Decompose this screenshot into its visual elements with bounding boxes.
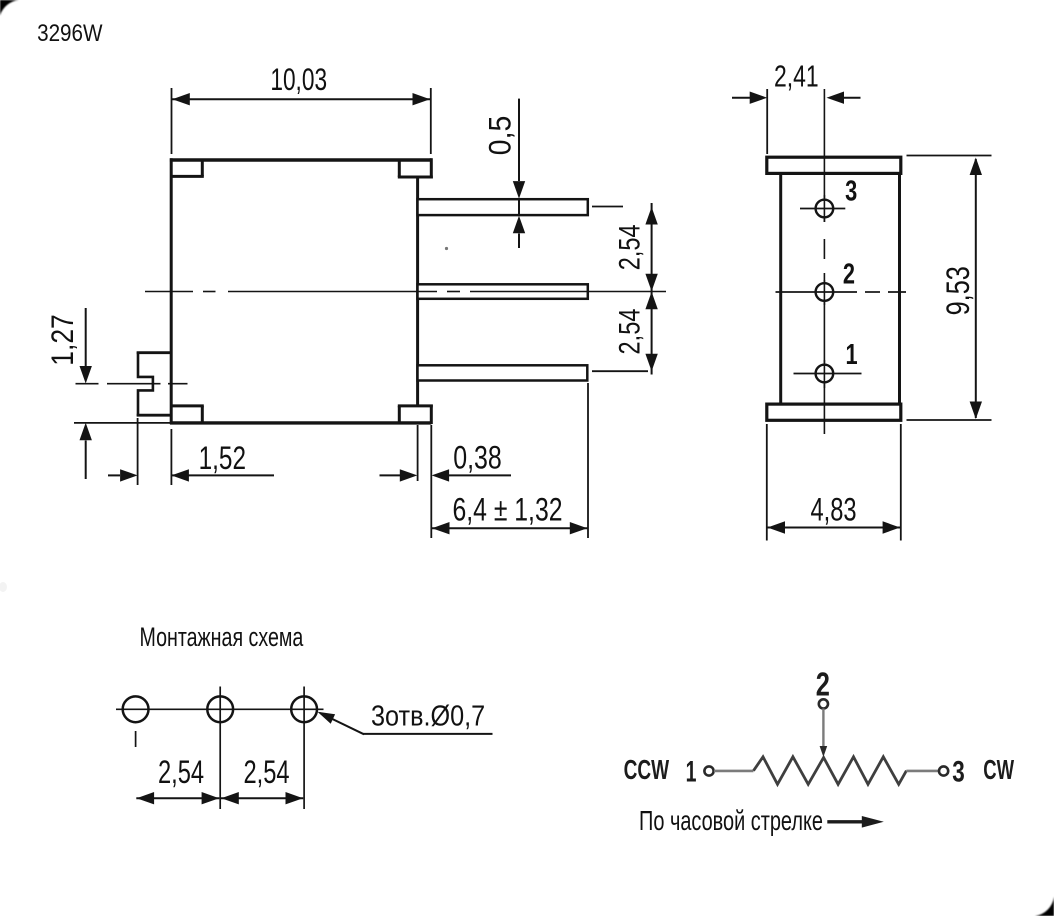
svg-text:2: 2 [843, 259, 855, 291]
dimension 0,5 label [483, 116, 518, 155]
trimmer body left edge [170, 158, 173, 424]
dimension 6,4 line [431, 522, 588, 534]
schematic terminal 2 label [816, 666, 830, 703]
dimension 9,53 extension lines [907, 156, 992, 421]
mounting hole 2 [207, 696, 233, 722]
dimension 1,27 line [80, 308, 92, 479]
svg-text:2,54: 2,54 [613, 308, 646, 354]
svg-text:2,54: 2,54 [158, 755, 204, 790]
pin label 1 [846, 339, 858, 371]
pin 2 centerline [145, 291, 666, 293]
trimmer body top edge [170, 158, 431, 162]
svg-text:Монтажная схема: Монтажная схема [140, 622, 305, 652]
dimension 1,52 extension lines [138, 418, 172, 485]
dimension 2,41 line [732, 92, 861, 104]
trimmer body bottom edge [170, 421, 431, 424]
mounting hole 3 [291, 696, 317, 722]
svg-text:3отв.Ø0,7: 3отв.Ø0,7 [371, 699, 485, 732]
dimension 2,54 lower arrows [645, 292, 657, 372]
dimension 10,03 extension lines [172, 88, 431, 154]
dimension 0,38 line [380, 469, 512, 481]
schematic terminal 1 [704, 766, 713, 775]
dimension 2,54 right label [243, 755, 289, 790]
page curl bottom-right corner [1035, 897, 1054, 916]
hole 1 [794, 360, 862, 388]
dimension 2,54 left (mounting) [136, 792, 219, 804]
svg-text:3: 3 [845, 176, 857, 208]
dimension 0,38 extension lines [418, 425, 432, 538]
dimension 1,52 line [108, 469, 274, 481]
mounting hole 1 [123, 696, 149, 722]
wiper arrow [820, 709, 828, 758]
front view vertical centerline [823, 89, 825, 434]
body bottom extension line [74, 422, 170, 424]
dimension 10,03 label [270, 62, 327, 98]
dimension 2,54 lower label [613, 308, 646, 354]
resistor element (zigzag) [754, 757, 907, 785]
pin 2 (middle, side view) [418, 284, 588, 299]
corner standoff top-right [398, 158, 433, 178]
front view top flange [767, 157, 901, 173]
dimension 2,54 left label [158, 755, 204, 790]
dimension 9,53 label [941, 266, 977, 315]
mounting hole 2 extension line [219, 687, 221, 810]
dimension 2,54 upper line [645, 203, 657, 375]
dimension 2,41 label [774, 58, 819, 93]
dimension 4,83 extension lines [767, 424, 901, 541]
caption clockwise [639, 806, 823, 837]
schematic terminal 3 label [952, 754, 965, 788]
screw slot centerline [76, 383, 188, 385]
front view body left edge [779, 173, 782, 404]
front view bottom flange [767, 404, 901, 420]
svg-text:1,52: 1,52 [199, 441, 246, 477]
mounting hole 1 centerline dash [135, 731, 137, 747]
dimension 2,54 right (mounting) [221, 792, 303, 804]
dimension 4,83 label [810, 492, 856, 527]
hole size callout 3отв.Ø0,7 [318, 699, 493, 735]
pin 1 (bottom, side view) [418, 365, 588, 380]
dimension 6,4 label [453, 492, 563, 528]
corner standoff bottom-left [170, 406, 204, 424]
mounting holes centerline [116, 708, 324, 710]
front view body right edge [898, 173, 901, 404]
adjustment screw housing [137, 352, 171, 417]
dimension 6,4 extension line right [587, 383, 589, 538]
svg-text:CW: CW [983, 755, 1014, 786]
corner standoff bottom-right [398, 405, 433, 425]
svg-text:3296W: 3296W [37, 20, 103, 47]
corner standoff top-left [170, 159, 204, 177]
clockwise direction arrow [827, 816, 884, 828]
pin 3 (top, side view) [418, 199, 588, 215]
pin label 2 [843, 259, 855, 291]
svg-text:2,54: 2,54 [243, 755, 289, 790]
svg-text:9,53: 9,53 [941, 266, 977, 315]
dimension 1,52 label [199, 441, 246, 477]
schematic label CW [983, 755, 1014, 786]
trimmer body right edge [416, 176, 419, 407]
schematic terminal 2 [819, 699, 828, 708]
pin pitch extension ticks [592, 207, 648, 372]
schematic label CCW [624, 754, 670, 786]
dimension 10,03 line [172, 93, 431, 105]
hole 3 [800, 195, 845, 222]
mounting diagram title [140, 622, 305, 652]
svg-text:1: 1 [686, 755, 697, 788]
dimension 2,41 extension line [766, 89, 768, 154]
dimension 4,83 line [767, 521, 901, 533]
svg-text:По часовой стрелке: По часовой стрелке [639, 806, 823, 837]
svg-text:1: 1 [846, 339, 858, 371]
title 3296W [37, 20, 103, 47]
dimension 0,38 label [453, 441, 502, 477]
svg-text:2: 2 [816, 666, 830, 703]
mounting hole 3 extension line [303, 687, 305, 810]
wire resistor to terminal 3 [906, 770, 939, 773]
dimension 2,54 upper label [613, 224, 646, 270]
dimension 1,27 label [46, 314, 81, 365]
svg-text:0,38: 0,38 [453, 441, 502, 477]
schematic terminal 3 [939, 766, 948, 775]
svg-text:6,4 ± 1,32: 6,4 ± 1,32 [453, 492, 563, 528]
svg-text:1,27: 1,27 [46, 314, 81, 365]
dimension 9,53 line [970, 158, 982, 420]
svg-text:10,03: 10,03 [270, 62, 327, 98]
stray dot [445, 247, 448, 250]
hole 2 [776, 280, 907, 305]
svg-text:4,83: 4,83 [810, 492, 856, 527]
wire terminal 1 to resistor [714, 770, 754, 773]
svg-text:0,5: 0,5 [483, 116, 518, 155]
page curl top-left corner [0, 0, 19, 16]
dimension 0,5 line [513, 99, 525, 248]
svg-text:CCW: CCW [624, 754, 670, 786]
schematic terminal 1 label [686, 755, 697, 788]
svg-text:2,54: 2,54 [613, 224, 646, 270]
svg-text:2,41: 2,41 [774, 58, 819, 93]
edge smudge left [0, 582, 7, 592]
pin label 3 [845, 176, 857, 208]
svg-text:3: 3 [952, 754, 965, 788]
